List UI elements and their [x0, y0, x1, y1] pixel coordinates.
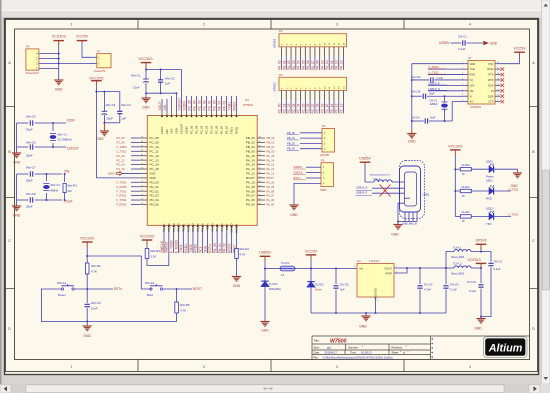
- svg-text:W7500: W7500: [330, 338, 347, 344]
- wire reset left loop: [41, 289, 176, 322]
- svg-text:PC_05: PC_05: [301, 103, 305, 113]
- U3 left net labels: [131, 137, 140, 139]
- svg-text:TXD2: TXD2: [189, 244, 193, 253]
- wire LED3 right: [494, 215, 512, 217]
- svg-text:PC_09: PC_09: [117, 141, 125, 145]
- bottom scrollbar right arrow button: [529, 385, 540, 393]
- svg-text:PC_14: PC_14: [150, 163, 160, 167]
- svg-text:PA_02: PA_02: [287, 60, 291, 70]
- ground below P6: [54, 79, 63, 81]
- svg-text:PC_03: PC_03: [198, 100, 202, 110]
- svg-text:3: 3: [336, 23, 338, 27]
- GPIOA pin wires and labels: [281, 47, 283, 57]
- title block lines: [312, 336, 530, 360]
- svg-text:Wiz-A2: Wiz-A2: [145, 281, 155, 285]
- svg-text:PC_13: PC_13: [340, 103, 344, 113]
- svg-text:PB_03: PB_03: [246, 136, 255, 140]
- svg-text:PA_11: PA_11: [246, 172, 255, 176]
- svg-text:VCC3V3: VCC3V3: [467, 258, 480, 262]
- svg-text:VDD: VDD: [150, 176, 157, 180]
- svg-text:X32OUT: X32OUT: [67, 147, 79, 151]
- svg-text:4.7K: 4.7K: [180, 308, 186, 312]
- svg-text:PA_03: PA_03: [225, 126, 229, 134]
- svg-text:VCC3V3: VCC3V3: [139, 57, 153, 61]
- svg-text:GPIOB: GPIOB: [320, 153, 329, 157]
- svg-text:VSS: VSS: [150, 172, 156, 176]
- svg-text:P6: P6: [26, 45, 30, 49]
- svg-text:XIN: XIN: [163, 104, 167, 110]
- svg-text:0.1uF: 0.1uF: [437, 77, 444, 80]
- svg-text:PA_10: PA_10: [325, 60, 329, 70]
- svg-text:PA_14: PA_14: [267, 158, 275, 162]
- svg-text:USB_Mini_B: USB_Mini_B: [402, 222, 417, 226]
- svg-text:GND: GND: [261, 329, 269, 333]
- svg-text:PC_07: PC_07: [311, 103, 315, 113]
- svg-text:of: of: [403, 351, 405, 355]
- svg-text:USB-D_N: USB-D_N: [356, 186, 368, 190]
- svg-text:PC_00: PC_00: [215, 125, 219, 134]
- inductor TLV-L1: [454, 250, 471, 252]
- svg-text:U3: U3: [245, 98, 249, 102]
- svg-text:PA_08: PA_08: [316, 60, 320, 70]
- svg-text:SWCLK: SWCLK: [160, 240, 164, 253]
- svg-text:RXD1: RXD1: [235, 126, 239, 134]
- header GPIOC: [279, 77, 347, 90]
- svg-text:PB_03: PB_03: [287, 147, 295, 151]
- svg-text:PA_11: PA_11: [330, 60, 334, 69]
- capacitor TLV-C1: [490, 252, 492, 262]
- svg-text:PC_12: PC_12: [150, 154, 160, 158]
- svg-text:VCC5V: VCC5V: [76, 35, 89, 39]
- svg-text:GND: GND: [83, 334, 91, 338]
- svg-text:10:50:31: 10:50:31: [361, 351, 372, 355]
- svg-text:CH-C13: CH-C13: [411, 75, 421, 79]
- svg-text:12MHz: 12MHz: [430, 102, 439, 106]
- svg-text:GND: GND: [13, 160, 21, 164]
- svg-text:VDD: VDD: [175, 128, 179, 134]
- svg-text:RXD: RXD: [486, 197, 492, 201]
- svg-text:4.7K: 4.7K: [91, 269, 97, 273]
- U4 ground pin wire: [375, 297, 377, 313]
- junction dots LED rail: [454, 168, 456, 170]
- diode TLV-D1: [264, 269, 266, 281]
- svg-text:PA_07: PA_07: [267, 194, 275, 198]
- title block parameter dots: [432, 338, 433, 357]
- svg-text:PC_00: PC_00: [278, 103, 282, 113]
- svg-text:P7: P7: [97, 49, 101, 53]
- svg-text:TLV-C2: TLV-C2: [467, 280, 476, 284]
- svg-text:PA_12: PA_12: [246, 167, 255, 171]
- svg-text:PA_02: PA_02: [223, 243, 227, 253]
- wire XIN row: [17, 173, 29, 175]
- svg-text:CH-R3: CH-R3: [462, 163, 471, 167]
- svg-text:USB5V: USB5V: [359, 157, 371, 161]
- wire P5 pin4 to ground: [294, 183, 321, 205]
- bottom scrollbar thumb: [26, 385, 504, 393]
- svg-text:PC_10: PC_10: [150, 145, 160, 149]
- wire crystal1 left rail: [16, 123, 18, 153]
- U3 W7500 body: [147, 116, 257, 226]
- regulator U4 TLV1117: [357, 264, 394, 298]
- svg-text:RXD: RXD: [470, 73, 476, 77]
- svg-text:Wiz-C9: Wiz-C9: [91, 301, 101, 305]
- svg-text:VCC3V3: VCC3V3: [140, 234, 154, 238]
- svg-text:XOUT: XOUT: [64, 199, 73, 203]
- svg-text:GND: GND: [55, 88, 63, 92]
- connector P7: [97, 54, 111, 68]
- svg-text:USB1: USB1: [423, 192, 430, 196]
- svg-text:PA_12: PA_12: [335, 60, 339, 70]
- svg-text:LED1: LED1: [486, 178, 493, 182]
- svg-text:1M: 1M: [68, 189, 73, 193]
- svg-text:U_TXD2: U_TXD2: [508, 213, 519, 217]
- U4 VOUT wires: [394, 267, 446, 269]
- P5 wires and labels: [306, 166, 321, 168]
- svg-text:GND: GND: [470, 62, 476, 66]
- svg-text:PC_05: PC_05: [190, 125, 194, 134]
- wire VCC3V3 to U3 VDD pin: [96, 177, 139, 179]
- svg-text:PB_15: PB_15: [201, 223, 205, 232]
- svg-text:Time:: Time:: [350, 351, 357, 355]
- ground arrow at U3 VSS: [122, 172, 140, 174]
- svg-text:1uF: 1uF: [165, 81, 170, 85]
- svg-text:PB_02: PB_02: [287, 141, 295, 145]
- svg-text:PA_11: PA_11: [267, 172, 275, 176]
- svg-text:Sheet: Sheet: [392, 351, 399, 355]
- svg-text:X32IN: X32IN: [183, 101, 187, 111]
- switch Wiz-A2 Boot: [150, 288, 152, 290]
- svg-text:Wiz-C4: Wiz-C4: [121, 103, 131, 107]
- svg-text:VCC5V: VCC5V: [514, 47, 527, 51]
- svg-text:RSTn: RSTn: [206, 223, 210, 230]
- svg-text:XIN: XIN: [165, 129, 169, 134]
- svg-text:PA_04: PA_04: [220, 126, 224, 134]
- svg-text:TLV-C4: TLV-C4: [450, 283, 459, 287]
- svg-text:VCC5V: VCC5V: [305, 249, 318, 253]
- ground below crystal1: [12, 152, 21, 154]
- svg-text:30pF: 30pF: [429, 92, 435, 95]
- svg-text:PC_13: PC_13: [117, 158, 125, 162]
- svg-text:20pF: 20pF: [26, 205, 33, 209]
- svg-text:Revision:: Revision:: [392, 346, 404, 350]
- svg-text:30pF: 30pF: [430, 117, 436, 120]
- svg-text:PD_04: PD_04: [150, 198, 160, 202]
- crystal Wiz-Y1: [52, 123, 54, 131]
- svg-text:PB_10: PB_10: [177, 223, 181, 232]
- svg-text:CH-R1: CH-R1: [462, 185, 471, 189]
- svg-text:P4: P4: [322, 124, 326, 128]
- svg-text:RXD2: RXD2: [194, 244, 198, 253]
- svg-text:P5: P5: [321, 158, 325, 162]
- svg-text:U7: U7: [468, 56, 472, 60]
- svg-text:1K: 1K: [462, 172, 465, 176]
- svg-text:PA_01: PA_01: [282, 60, 286, 70]
- svg-text:F_TXD0: F_TXD0: [117, 180, 127, 184]
- svg-text:CH340G: CH340G: [470, 105, 482, 109]
- svg-text:V3: V3: [470, 78, 474, 82]
- svg-text:PB_01: PB_01: [267, 145, 275, 149]
- svg-text:Wiz-R2: Wiz-R2: [240, 247, 250, 251]
- svg-text:PC_01: PC_01: [282, 103, 286, 113]
- svg-text:X32OUT: X32OUT: [180, 123, 184, 134]
- svg-text:10uF: 10uF: [106, 117, 113, 121]
- svg-text:DCD: DCD: [488, 83, 494, 87]
- svg-text:VOUT: VOUT: [384, 266, 392, 270]
- resistor Wiz-R5: [176, 289, 178, 302]
- ground below Wiz-C1: [145, 93, 147, 98]
- svg-text:PC_03: PC_03: [200, 125, 204, 134]
- svg-text:Wiz-C8: Wiz-C8: [26, 192, 36, 196]
- svg-text:PB_13: PB_13: [191, 223, 195, 232]
- ground below CH340: [407, 133, 416, 135]
- wire X32OUT row: [17, 146, 29, 148]
- U3 top pin wires: [186, 96, 188, 112]
- svg-text:CH-Y1: CH-Y1: [430, 98, 438, 102]
- inductor TLV-L2: [446, 267, 454, 269]
- svg-text:TLV-D1: TLV-D1: [269, 282, 278, 286]
- P6 pin wires: [39, 53, 59, 55]
- svg-text:PD_00: PD_00: [150, 180, 160, 184]
- svg-text:F_TXD1: F_TXD1: [117, 189, 127, 193]
- svg-text:VSS: VSS: [170, 128, 174, 134]
- svg-text:20pF: 20pF: [26, 179, 33, 183]
- svg-text:PA_09: PA_09: [267, 185, 275, 189]
- svg-text:F_TXD0: F_TXD0: [170, 240, 174, 252]
- svg-text:PA_00: PA_00: [278, 60, 282, 70]
- svg-text:PC_02: PC_02: [203, 100, 207, 110]
- svg-text:TXD1: TXD1: [228, 102, 232, 111]
- svg-text:BOOT: BOOT: [193, 287, 202, 291]
- svg-text:SDA: SDA: [203, 245, 207, 253]
- svg-text:PB_07: PB_07: [162, 223, 166, 232]
- svg-text:PA_03: PA_03: [223, 101, 227, 111]
- svg-text:TLV-C1: TLV-C1: [494, 259, 503, 263]
- svg-text:PC_08: PC_08: [150, 136, 160, 140]
- svg-text:PA_00: PA_00: [210, 223, 214, 231]
- junction dot fuse rail: [264, 268, 266, 270]
- right scrollbar track: [542, 0, 550, 384]
- svg-text:PC_11: PC_11: [330, 104, 334, 114]
- svg-text:PB_14: PB_14: [196, 223, 200, 232]
- svg-text:VCC3V3: VCC3V3: [89, 76, 103, 80]
- svg-text:GND: GND: [108, 172, 116, 176]
- svg-text:3: 3: [336, 365, 338, 369]
- ground below Wiz-C3C4: [103, 123, 105, 131]
- svg-text:4: 4: [469, 23, 471, 27]
- svg-text:Wiz-R4: Wiz-R4: [91, 264, 101, 268]
- resistor Wiz-R4: [86, 256, 88, 263]
- diode TLV-D2 zener: [310, 269, 312, 282]
- svg-text:TLV-L1: TLV-L1: [453, 245, 462, 249]
- svg-text:PC_02: PC_02: [287, 103, 291, 113]
- capacitor TLV-C3: [419, 268, 421, 284]
- svg-text:CH-C1: CH-C1: [458, 34, 467, 38]
- top toolbar strip: [0, 0, 550, 10]
- svg-text:2: 2: [203, 365, 205, 369]
- svg-text:X32OUT: X32OUT: [178, 98, 182, 111]
- resistor Wiz-R2: [235, 248, 237, 253]
- svg-text:F_RXD1: F_RXD1: [117, 194, 128, 198]
- crystal Wiz-Y2: [45, 174, 47, 181]
- svg-text:F_TXD2: F_TXD2: [117, 198, 127, 202]
- svg-text:PC_04: PC_04: [195, 125, 199, 134]
- svg-text:Wiz-R5: Wiz-R5: [180, 303, 190, 307]
- svg-text:Altium: Altium: [488, 343, 523, 355]
- svg-text:Power5V: Power5V: [94, 69, 106, 73]
- switch Wiz-A1 Reset: [61, 288, 63, 290]
- svg-text:TXD: TXD: [470, 67, 475, 71]
- svg-text:BOOT: BOOT: [228, 243, 232, 252]
- wire Wiz-C3C4 bottom rail: [104, 122, 119, 124]
- svg-text:3uF: 3uF: [340, 287, 345, 291]
- svg-text:PC_08: PC_08: [316, 103, 320, 113]
- LED LED3 TXD: [489, 213, 494, 220]
- frame inner border: [15, 29, 530, 360]
- svg-text:PA_13: PA_13: [267, 163, 275, 167]
- svg-text:0.1uF: 0.1uF: [494, 267, 501, 271]
- svg-text:DTR: DTR: [488, 78, 493, 82]
- ground below TLV-D1: [260, 321, 269, 323]
- U7 pins and names: [464, 63, 468, 65]
- svg-text:PB_00: PB_00: [287, 131, 295, 135]
- bottom scrollbar track: [0, 384, 550, 393]
- svg-text:GND: GND: [408, 139, 416, 143]
- svg-text:XI: XI: [470, 94, 473, 98]
- wire USB data pair: [372, 187, 404, 189]
- svg-text:1uF: 1uF: [121, 117, 126, 121]
- svg-text:SWCLK: SWCLK: [294, 171, 303, 175]
- svg-text:PB_12: PB_12: [186, 223, 190, 232]
- svg-text:X32IN: X32IN: [185, 126, 189, 134]
- svg-text:PA_06: PA_06: [246, 198, 255, 202]
- svg-text:PA_00: PA_00: [213, 243, 217, 253]
- net label USB-D_P at U7: [428, 84, 464, 86]
- wire XOUT row: [17, 199, 29, 201]
- svg-text:PA_08: PA_08: [267, 189, 275, 193]
- svg-text:PA_12: PA_12: [267, 167, 275, 171]
- scrollbar corner: [541, 384, 550, 393]
- svg-text:F_RXD0: F_RXD0: [174, 240, 178, 253]
- svg-text:PA_13: PA_13: [340, 60, 344, 70]
- net label U_RXD2 at U7: [428, 68, 464, 70]
- svg-text:PD_03: PD_03: [150, 194, 160, 198]
- svg-text:PA_08: PA_08: [246, 189, 255, 193]
- svg-text:2: 2: [203, 23, 205, 27]
- U3 right pin stubs: [257, 137, 265, 139]
- svg-text:GND: GND: [359, 325, 367, 329]
- svg-text:GPIOC: GPIOC: [273, 82, 277, 91]
- svg-text:RSTn: RSTn: [208, 244, 212, 253]
- svg-text:CTS: CTS: [488, 100, 493, 104]
- svg-text:1: 1: [71, 365, 73, 369]
- svg-text:Vin: Vin: [359, 266, 363, 270]
- svg-text:SWD: SWD: [320, 188, 327, 192]
- svg-text:20pF: 20pF: [26, 128, 33, 132]
- svg-text:1A: 1A: [281, 273, 284, 277]
- svg-text:PA_01: PA_01: [218, 243, 222, 253]
- svg-text:GND: GND: [474, 327, 482, 331]
- svg-text:SWCLK: SWCLK: [235, 223, 239, 233]
- svg-text:TLV-L2: TLV-L2: [453, 262, 462, 266]
- svg-text:32.768KHz: 32.768KHz: [58, 138, 73, 142]
- svg-text:Number:: Number:: [348, 346, 359, 350]
- resistor CH-R2: [455, 215, 460, 217]
- svg-text:PC_04: PC_04: [297, 103, 301, 113]
- wire TLV-L1 branch: [446, 252, 454, 268]
- svg-text:Wiz-Y2: Wiz-Y2: [51, 183, 61, 187]
- connector P5 SWD: [321, 163, 334, 187]
- svg-text:PC_04: PC_04: [193, 100, 197, 110]
- svg-text:PB_00: PB_00: [246, 149, 255, 153]
- svg-text:PA_15: PA_15: [246, 154, 255, 158]
- svg-text:PC_05: PC_05: [188, 100, 192, 110]
- svg-text:U_RXD2: U_RXD2: [508, 187, 519, 191]
- svg-text:UD+: UD+: [470, 83, 476, 87]
- svg-text:1K: 1K: [462, 219, 465, 223]
- inductor CH-L1: [374, 180, 392, 182]
- svg-text:USB-D_P: USB-D_P: [356, 191, 368, 195]
- svg-text:Boot: Boot: [147, 293, 153, 297]
- capacitor Wiz-C4: [117, 111, 122, 113]
- svg-text:PA_07: PA_07: [311, 60, 315, 70]
- svg-text:LED2: LED2: [486, 207, 493, 211]
- svg-text:*: *: [408, 350, 409, 354]
- capacitor Wiz-C3: [96, 91, 119, 93]
- svg-text:888-5M04606-12LJT: 888-5M04606-12LJT: [370, 174, 391, 176]
- svg-text:PD_06: PD_06: [150, 203, 160, 207]
- right scrollbar thumb: [542, 170, 549, 290]
- U7 GND pin wire to rail: [412, 63, 464, 65]
- svg-text:PA_02: PA_02: [220, 223, 224, 231]
- svg-text:PC_15: PC_15: [150, 167, 160, 171]
- resistor CH-R1: [455, 190, 460, 192]
- bottom rail power supply: [311, 312, 446, 314]
- svg-text:VCC3V3: VCC3V3: [52, 35, 66, 39]
- LED LED2 RXD: [489, 188, 494, 195]
- svg-text:PB_11: PB_11: [181, 223, 185, 231]
- svg-text:PC_08: PC_08: [117, 136, 125, 140]
- svg-text:C_RXD2: C_RXD2: [117, 145, 128, 149]
- svg-text:PC_12: PC_12: [335, 103, 339, 113]
- svg-text:VTAP: VTAP: [385, 272, 392, 276]
- svg-text:VCC3V3: VCC3V3: [448, 144, 462, 148]
- svg-text:10nF: 10nF: [91, 306, 98, 310]
- svg-text:PC_09: PC_09: [150, 141, 160, 145]
- ground below reset circuit: [86, 322, 88, 327]
- U3 top pin stubs: [161, 112, 163, 116]
- wire XO loop: [452, 102, 464, 121]
- svg-text:Wiz-C6: Wiz-C6: [26, 141, 36, 145]
- svg-text:PC_11: PC_11: [150, 149, 159, 153]
- svg-text:PC_09: PC_09: [320, 103, 324, 113]
- capacitor Wiz-C9: [86, 289, 88, 303]
- svg-text:5.1K: 5.1K: [151, 254, 157, 258]
- svg-text:RTS: RTS: [488, 73, 493, 77]
- svg-text:Wiz-C3: Wiz-C3: [106, 103, 116, 107]
- svg-text:PC_14: PC_14: [117, 163, 125, 167]
- svg-text:Wiz-C2: Wiz-C2: [165, 76, 175, 80]
- svg-text:PA_10: PA_10: [246, 180, 255, 184]
- svg-text:XOUT: XOUT: [160, 126, 164, 134]
- wire P6 pin1 to ground: [58, 69, 60, 80]
- svg-text:GND: GND: [13, 213, 21, 217]
- svg-text:X32N: X32N: [67, 119, 76, 123]
- wire LED2 right: [494, 190, 512, 192]
- svg-text:PA_09: PA_09: [320, 60, 324, 70]
- ground arrow right of CH-C1: [484, 41, 489, 45]
- wire VCC3V3 to boot switch: [87, 256, 151, 289]
- svg-text:G:\My\AltiumWorkingJspace\QFN1: G:\My\AltiumWorkingJspace\QFN100 W7500 5…: [323, 355, 394, 359]
